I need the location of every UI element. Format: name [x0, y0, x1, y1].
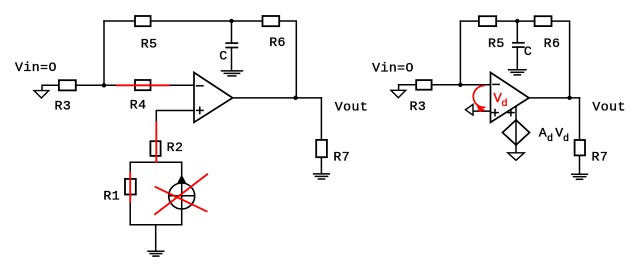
- current source I1 arrow head: [177, 175, 186, 184]
- wire node A up to feedback (right): [459, 21, 461, 85]
- wire R6 to right corner (right): [552, 21, 570, 98]
- node B junction dot: [229, 19, 233, 23]
- svg-text:C: C: [219, 49, 227, 64]
- resistor R3 (right): [416, 80, 431, 90]
- wire op-amp plus input to ground arrow (right): [473, 110, 491, 112]
- svg-text:d: d: [563, 133, 569, 145]
- resistor R7: [316, 140, 327, 157]
- wire current source to loop bottom: [181, 209, 183, 225]
- svg-text:C: C: [524, 44, 532, 59]
- top wire to R5 (right): [460, 20, 479, 22]
- svg-text:R5: R5: [488, 36, 505, 51]
- wire C to ground (right): [516, 48, 518, 69]
- wire loop to ground: [155, 225, 157, 251]
- ground (loop bottom): [148, 251, 164, 256]
- loop left wire upper: [129, 162, 131, 179]
- resistor R1: [125, 179, 136, 195]
- op-amp U1 plus marker: [197, 107, 203, 113]
- node B junction dot (right): [515, 19, 519, 23]
- wire R5 to node B (right): [496, 20, 534, 22]
- svg-text:R7: R7: [592, 149, 609, 164]
- wire op-amp plus input: [156, 111, 194, 123]
- svg-text:R3: R3: [55, 99, 72, 114]
- wire node A to op-amp (black part under red): [104, 84, 194, 86]
- wire R5 to node B: [151, 20, 263, 22]
- loop bottom wire: [130, 224, 182, 226]
- loop top wire: [130, 161, 182, 163]
- svg-text:Vin=O: Vin=O: [15, 60, 57, 75]
- svg-text:Vout: Vout: [592, 99, 625, 114]
- wire Vout corner down to R7: [320, 98, 322, 140]
- wire diamond to ground: [515, 145, 517, 153]
- op-amp U1: [194, 73, 233, 123]
- ground arrow (Vin source ground): [34, 91, 49, 98]
- svg-text:R1: R1: [103, 188, 120, 203]
- wire node A up to feedback: [103, 21, 105, 85]
- ground (R7): [314, 174, 330, 179]
- svg-text:Vin=O: Vin=O: [372, 60, 414, 75]
- wire R3 to op-amp minus (right): [432, 84, 491, 86]
- red Vd differential arc arrow: [473, 86, 484, 108]
- resistor R2: [150, 141, 160, 156]
- capacitor C plates: [226, 42, 237, 44]
- red wire highlight through R2: [155, 123, 157, 163]
- ground (capacitor C): [222, 71, 243, 76]
- wire op-amp output to Vout corner (right): [529, 97, 580, 99]
- dependent source E1 diamond: [503, 120, 530, 145]
- wire R7 to ground: [320, 157, 322, 173]
- loop left wire lower: [129, 195, 131, 225]
- svg-text:R5: R5: [141, 36, 158, 51]
- ground (R7 right): [572, 174, 588, 179]
- svg-text:A: A: [539, 126, 547, 141]
- node A junction dot: [102, 83, 106, 87]
- ground arrow (right Vin source ground): [391, 90, 406, 98]
- op-amp U2 plus marker: [492, 110, 498, 116]
- wire input to R3 (right): [399, 85, 417, 91]
- wire R3 to node A: [76, 84, 104, 86]
- wire C to ground: [231, 48, 233, 70]
- resistor R7 (right): [575, 140, 585, 155]
- ground (capacitor C right): [509, 70, 526, 75]
- svg-text:R4: R4: [130, 98, 147, 113]
- svg-text:R2: R2: [167, 140, 184, 155]
- svg-text:R7: R7: [333, 150, 350, 165]
- resistor R4: [135, 80, 151, 90]
- ground arrow (dependent source): [508, 153, 525, 161]
- resistor R5: [135, 16, 151, 26]
- op-amp U2 minus marker: [493, 83, 499, 85]
- red X cross over current source line 2: [156, 187, 207, 211]
- red wire highlight through R4: [117, 84, 169, 86]
- current source I1 circle: [169, 183, 195, 209]
- dependent source plus polarity marker: [508, 110, 514, 116]
- resistor R6 (right): [535, 16, 552, 26]
- current source I1 arrow shaft: [181, 183, 183, 209]
- resistor R3: [59, 80, 76, 90]
- current source I1 horizontal bar: [169, 195, 194, 197]
- svg-text:R6: R6: [269, 35, 286, 50]
- op-amp U1 minus marker: [197, 85, 203, 87]
- red wire highlight through R1: [129, 172, 131, 201]
- resistor R5 (right): [479, 16, 496, 26]
- red X cross over current source line 1: [155, 174, 207, 214]
- red Vd arc arrow head: [476, 103, 486, 112]
- wire R6 to right corner: [279, 21, 296, 98]
- wire R7 to ground (right): [579, 155, 581, 173]
- wire top left to R5: [104, 20, 135, 22]
- dependent source wire from op-amp: [515, 106, 517, 120]
- wire op-amp output to Vout corner: [233, 97, 322, 99]
- wire loop to current source arrow: [181, 162, 183, 176]
- op-amp U2: [491, 73, 530, 123]
- capacitor C plates (right): [513, 42, 524, 44]
- wire Vout corner down to R7 (right): [579, 98, 581, 140]
- svg-text:d: d: [547, 133, 553, 145]
- capacitor C wire from node B: [231, 21, 233, 43]
- node A junction dot (right): [458, 83, 462, 87]
- ground arrow (op-amp plus input, pointing left): [465, 104, 473, 115]
- svg-text:R3: R3: [410, 99, 427, 114]
- node Vout junction dot (right): [567, 96, 571, 100]
- svg-text:R6: R6: [544, 36, 561, 51]
- wire input to R3: [42, 85, 59, 90]
- svg-text:Vout: Vout: [335, 99, 368, 114]
- capacitor C wire (right): [516, 21, 518, 42]
- dependent source E1 inner line: [515, 120, 517, 145]
- resistor R6: [263, 16, 280, 26]
- svg-text:d: d: [501, 98, 507, 110]
- node Vout junction dot: [293, 96, 297, 100]
